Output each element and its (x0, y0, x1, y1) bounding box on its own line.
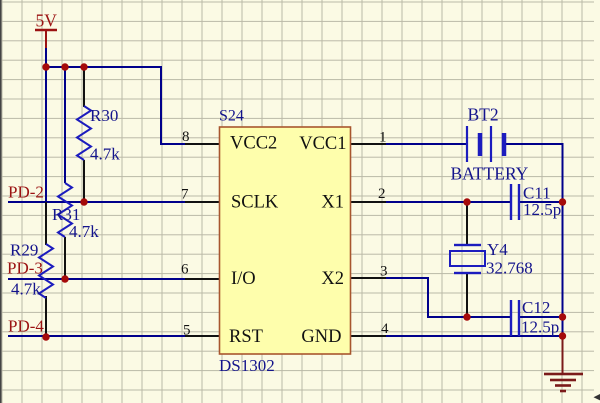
svg-text:SCLK: SCLK (231, 192, 279, 212)
svg-text:5V: 5V (36, 10, 58, 30)
svg-text:VCC2: VCC2 (230, 133, 277, 153)
svg-text:PD-4: PD-4 (8, 317, 44, 336)
svg-text:I/O: I/O (231, 269, 256, 289)
svg-text:VCC1: VCC1 (299, 134, 346, 154)
svg-text:X1: X1 (321, 192, 344, 212)
svg-text:Y4: Y4 (487, 240, 508, 259)
svg-text:BATTERY: BATTERY (451, 164, 529, 184)
svg-text:8: 8 (182, 129, 190, 145)
svg-text:4.7k: 4.7k (90, 145, 120, 164)
svg-text:7: 7 (181, 187, 189, 203)
svg-text:X2: X2 (321, 269, 344, 289)
svg-text:R30: R30 (90, 106, 118, 125)
svg-text:DS1302: DS1302 (219, 356, 275, 375)
svg-text:2: 2 (378, 186, 386, 202)
svg-text:32.768: 32.768 (486, 259, 533, 278)
svg-text:BT2: BT2 (468, 105, 499, 125)
svg-text:R29: R29 (10, 241, 38, 260)
svg-text:PD-2: PD-2 (8, 183, 44, 202)
svg-text:12.5p: 12.5p (521, 318, 559, 337)
svg-text:4.7k: 4.7k (11, 280, 41, 299)
svg-text:PD-3: PD-3 (7, 259, 43, 278)
svg-text:4: 4 (381, 321, 389, 337)
svg-text:GND: GND (301, 327, 341, 347)
svg-text:4.7k: 4.7k (69, 222, 99, 241)
svg-text:C12: C12 (522, 298, 550, 317)
svg-text:1: 1 (379, 130, 387, 146)
svg-text:6: 6 (181, 262, 189, 278)
svg-text:3: 3 (380, 264, 388, 280)
svg-text:S24: S24 (219, 108, 244, 125)
svg-text:RST: RST (229, 327, 263, 347)
svg-text:5: 5 (183, 323, 191, 339)
svg-text:12.5p: 12.5p (523, 200, 561, 219)
